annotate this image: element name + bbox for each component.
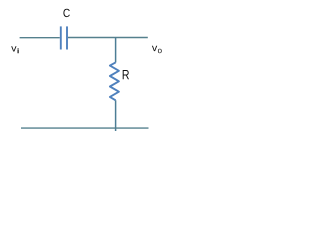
- resistor R: [110, 62, 129, 100]
- wire: [68, 37, 148, 39]
- wire: [115, 38, 117, 63]
- capacitor C: [61, 9, 70, 50]
- wire: [21, 127, 149, 129]
- wire: [115, 100, 117, 131]
- node vo: [152, 46, 162, 53]
- wire: [20, 37, 60, 39]
- node vi: [11, 46, 19, 53]
